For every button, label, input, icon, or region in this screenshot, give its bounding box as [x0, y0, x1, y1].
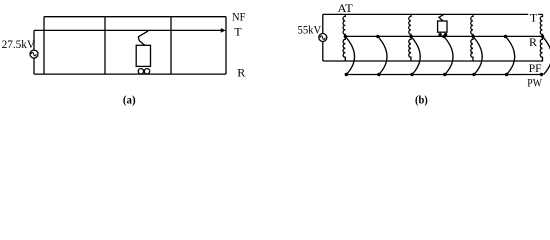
locomotive right wheel (b): [444, 33, 447, 36]
wire R rail line (a): [34, 73, 226, 75]
svg-text:T: T: [530, 10, 538, 24]
autotransformer AT1 winding lower half: [343, 36, 345, 61]
wire vertical NF-to-R bond at right end (a): [225, 17, 227, 74]
junction dot AT1 centre tap on R: [344, 35, 347, 38]
junction dot on PW at bond no.2: [377, 73, 380, 76]
autotransformer AT3 winding lower half: [471, 36, 473, 61]
wire PW protection wire line (b): [347, 74, 542, 76]
svg-text:AT: AT: [338, 1, 354, 15]
locomotive left wheel (a): [138, 69, 143, 74]
wire vertical NF-to-R bond mid-right (a): [170, 17, 172, 74]
bond arc R-to-PW at AT1: [345, 36, 354, 74]
svg-text:T: T: [234, 24, 242, 38]
locomotive right wheel (a): [144, 69, 149, 74]
wire from source bottom to R line (a): [33, 58, 35, 74]
autotransformer AT3 winding upper half: [471, 14, 473, 36]
autotransformer AT2 winding upper half: [409, 14, 411, 36]
junction dot on R at bond no.2: [376, 35, 379, 38]
wire NF feeder line (a): [44, 16, 226, 18]
svg-text:55kV: 55kV: [298, 22, 322, 36]
locomotive left wheel (b): [438, 33, 441, 36]
junction dot on PW at AT4 bond: [540, 73, 543, 76]
locomotive body (a): [136, 45, 150, 66]
wire R rail line (b): [345, 35, 543, 37]
sine symbol inside source G1: [31, 52, 36, 55]
junction dot on PW at AT2 bond: [410, 73, 413, 76]
svg-text:27.5kV: 27.5kV: [2, 37, 36, 51]
wire vertical NF-to-R bond at left end (a): [43, 17, 45, 74]
wire from source bottom to PF line (b): [322, 42, 324, 62]
autotransformer AT2 winding lower half: [409, 36, 411, 61]
bond arc R-to-PW no.6: [506, 36, 515, 74]
junction dot on R at bond no.6: [504, 35, 507, 38]
wire from source top to T line (a): [33, 30, 35, 50]
bond arc R-to-PW no.2: [378, 36, 387, 74]
svg-text:R: R: [237, 65, 245, 79]
junction dot on PW at bond no.6: [505, 73, 508, 76]
sine symbol inside source G2: [320, 36, 325, 39]
junction dot on PW at AT1 bond: [345, 73, 348, 76]
junction dot on PW at bond no.4: [443, 73, 446, 76]
junction dot on PW at AT3 bond: [472, 73, 475, 76]
junction dot AT4 centre tap on R: [541, 35, 544, 38]
svg-text:(b): (b): [415, 92, 428, 106]
arrowhead at right end of T line (a): [221, 28, 226, 33]
junction dot on R at bond no.4: [442, 35, 445, 38]
svg-text:(a): (a): [123, 93, 136, 107]
wire T contact line (a): [34, 29, 222, 31]
svg-text:R: R: [529, 35, 537, 49]
autotransformer AT1 winding upper half: [343, 14, 345, 36]
svg-text:PW: PW: [527, 76, 542, 90]
svg-text:PF: PF: [529, 61, 542, 75]
AC source G1 27.5kV circle (a): [30, 50, 38, 58]
autotransformer AT4 winding lower half: [540, 36, 542, 61]
pantograph of locomotive (a): [138, 31, 148, 45]
bond arc R-to-PW at AT4: [543, 36, 550, 74]
autotransformer AT4 winding upper half: [540, 14, 542, 36]
pantograph of locomotive (b): [439, 14, 444, 21]
wire from source top to T line (b): [322, 14, 324, 33]
locomotive body (b): [438, 21, 447, 32]
wire PF positive feeder line (b): [323, 60, 543, 62]
bond arc R-to-PW at AT3: [473, 36, 482, 74]
bond arc R-to-PW at AT2: [411, 36, 420, 74]
junction dot AT3 centre tap on R: [471, 35, 474, 38]
svg-text:NF: NF: [232, 9, 246, 23]
wire vertical NF-to-R bond mid-left (a): [104, 17, 106, 74]
wire T contact line (b): [323, 13, 543, 15]
white backing for net label T (b): [528, 10, 538, 21]
junction dot AT2 centre tap on R: [409, 35, 412, 38]
AC source G2 55kV circle (b): [319, 34, 327, 42]
bond arc R-to-PW no.4 under locomotive: [444, 36, 453, 74]
